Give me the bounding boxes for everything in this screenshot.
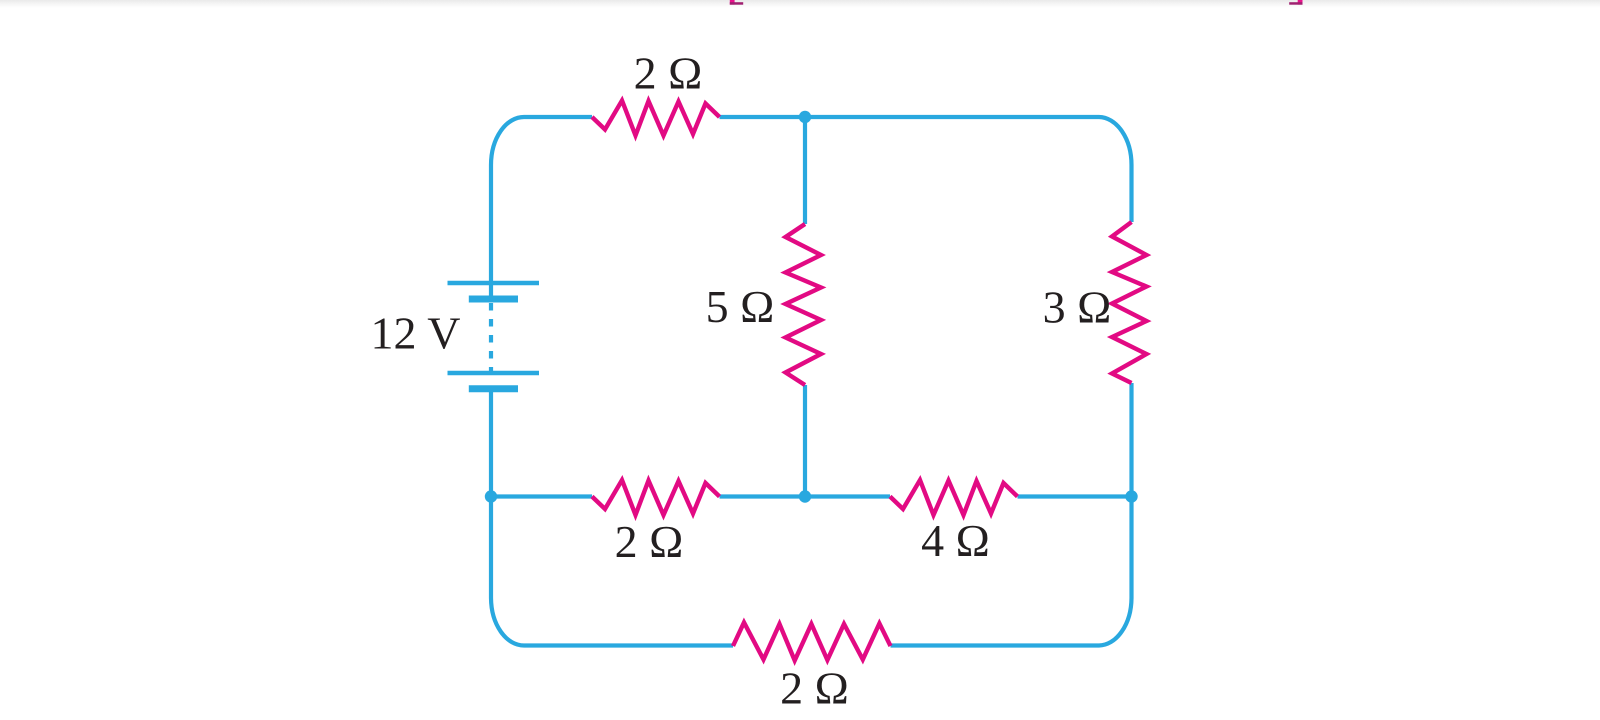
wire mid lower: 5ohm to node C [803,385,807,497]
battery long plate bottom [448,371,540,376]
wire top-right: 2ohm to corner to 3ohm top [720,117,1132,222]
top shadow band [0,0,1600,8]
wire right lower: 3ohm to node D to bottom-right corner to 2ohm [891,383,1132,646]
battery short plate top [469,296,518,303]
resistor 2ohm bottom-left [592,480,720,515]
battery long plate top [448,281,540,286]
battery dashed link [489,303,493,372]
battery B1 [448,283,540,389]
wire mid upper: node A to 5ohm [803,117,807,224]
wire bottom row: node B to 2ohm [491,494,592,498]
node A junction dot [799,111,811,123]
resistor 2ohm bottom [733,623,891,661]
node C junction dot [799,490,811,502]
wire bottom row: 2ohm to node C to 4ohm [720,494,891,498]
resistor 3ohm right vertical [1112,222,1147,383]
wire bottom row: 4ohm to node D [1018,494,1132,498]
left bracket glyph tip [730,0,743,5]
svg-text:3 Ω: 3 Ω [1043,282,1112,333]
node D junction dot [1125,490,1137,502]
wire top-left: battery top to top-left corner to 2ohm [491,117,592,298]
node B junction dot [485,490,497,502]
resistor 2ohm top [592,101,720,136]
svg-text:12 V: 12 V [371,308,461,359]
resistor 5ohm middle vertical [786,224,822,385]
svg-text:2 Ω: 2 Ω [615,516,684,567]
svg-text:4 Ω: 4 Ω [921,515,990,566]
resistor 4ohm [890,480,1018,515]
right bracket glyph tip [1289,0,1302,5]
battery short plate bottom [469,385,518,392]
svg-text:2 Ω: 2 Ω [780,663,849,714]
wire bottom-left: 2ohm to corner up through node B to battery bottom [491,390,733,646]
svg-text:2 Ω: 2 Ω [634,48,703,99]
svg-text:5 Ω: 5 Ω [706,281,775,332]
